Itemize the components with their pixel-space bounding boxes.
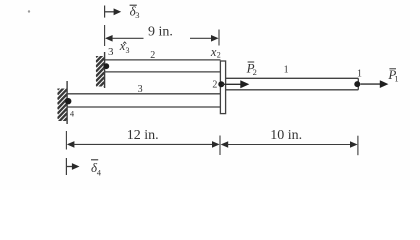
svg-text:10 in.: 10 in. (270, 128, 302, 143)
svg-text:3: 3 (138, 84, 143, 95)
bar element 1 (226, 78, 359, 90)
bar element 2 (105, 60, 221, 72)
rigid plate at node 2 (220, 61, 225, 114)
svg-text:4: 4 (70, 109, 75, 119)
node 2 dot (218, 81, 224, 87)
svg-text:2: 2 (253, 67, 257, 77)
label delta-4 (91, 160, 102, 178)
svg-text:1: 1 (357, 68, 362, 79)
dimension 9 in. (105, 25, 219, 46)
displacement arrow delta-4 (66, 158, 79, 175)
bar element 3 (67, 94, 220, 107)
svg-text:4: 4 (97, 168, 102, 178)
svg-text:1: 1 (394, 74, 398, 84)
dimension 10 in. (221, 128, 358, 155)
svg-text:12 in.: 12 in. (127, 128, 159, 143)
label x2 axis (210, 45, 221, 59)
label delta-3 (130, 4, 140, 20)
node 3 dot (103, 63, 109, 69)
svg-text:1: 1 (284, 64, 289, 75)
node 4 dot (65, 98, 71, 104)
svg-text:3: 3 (135, 10, 139, 20)
wall support upper (node 3) (96, 48, 105, 95)
label P1 (387, 67, 398, 83)
dimension 12 in. (66, 128, 220, 155)
label x3 axis (119, 39, 130, 55)
displacement arrow delta-3 (105, 6, 122, 18)
svg-text:3: 3 (108, 46, 114, 58)
svg-text:9 in.: 9 in. (148, 25, 173, 40)
svg-text:3: 3 (126, 46, 130, 55)
wall support left (node 4) (57, 80, 67, 133)
speck artifact (28, 10, 30, 12)
node 1 dot (354, 81, 360, 87)
svg-text:2: 2 (212, 80, 217, 91)
label P2 (246, 61, 257, 78)
svg-text:2: 2 (217, 50, 221, 59)
force arrow P2 (222, 80, 249, 88)
force arrow P1 (361, 80, 389, 88)
svg-text:2: 2 (150, 50, 155, 61)
